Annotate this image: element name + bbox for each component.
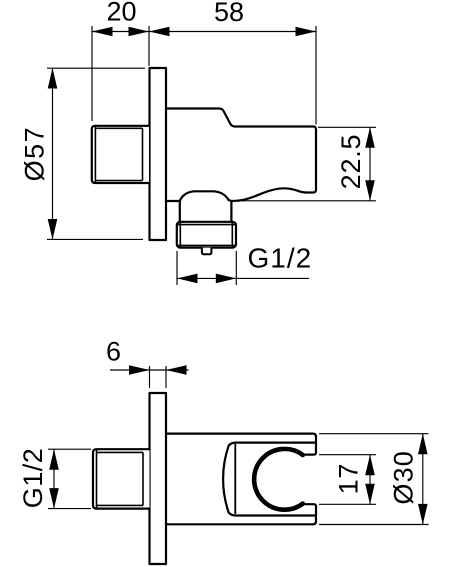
svg-text:Ø57: Ø57 xyxy=(20,126,50,182)
svg-text:22.5: 22.5 xyxy=(336,134,366,190)
svg-text:58: 58 xyxy=(214,0,244,27)
svg-text:17: 17 xyxy=(334,463,364,495)
svg-text:G1/2: G1/2 xyxy=(18,448,48,509)
svg-text:6: 6 xyxy=(106,336,121,366)
svg-text:Ø30: Ø30 xyxy=(389,450,419,505)
svg-text:20: 20 xyxy=(106,0,136,27)
svg-text:G1/2: G1/2 xyxy=(248,243,313,274)
